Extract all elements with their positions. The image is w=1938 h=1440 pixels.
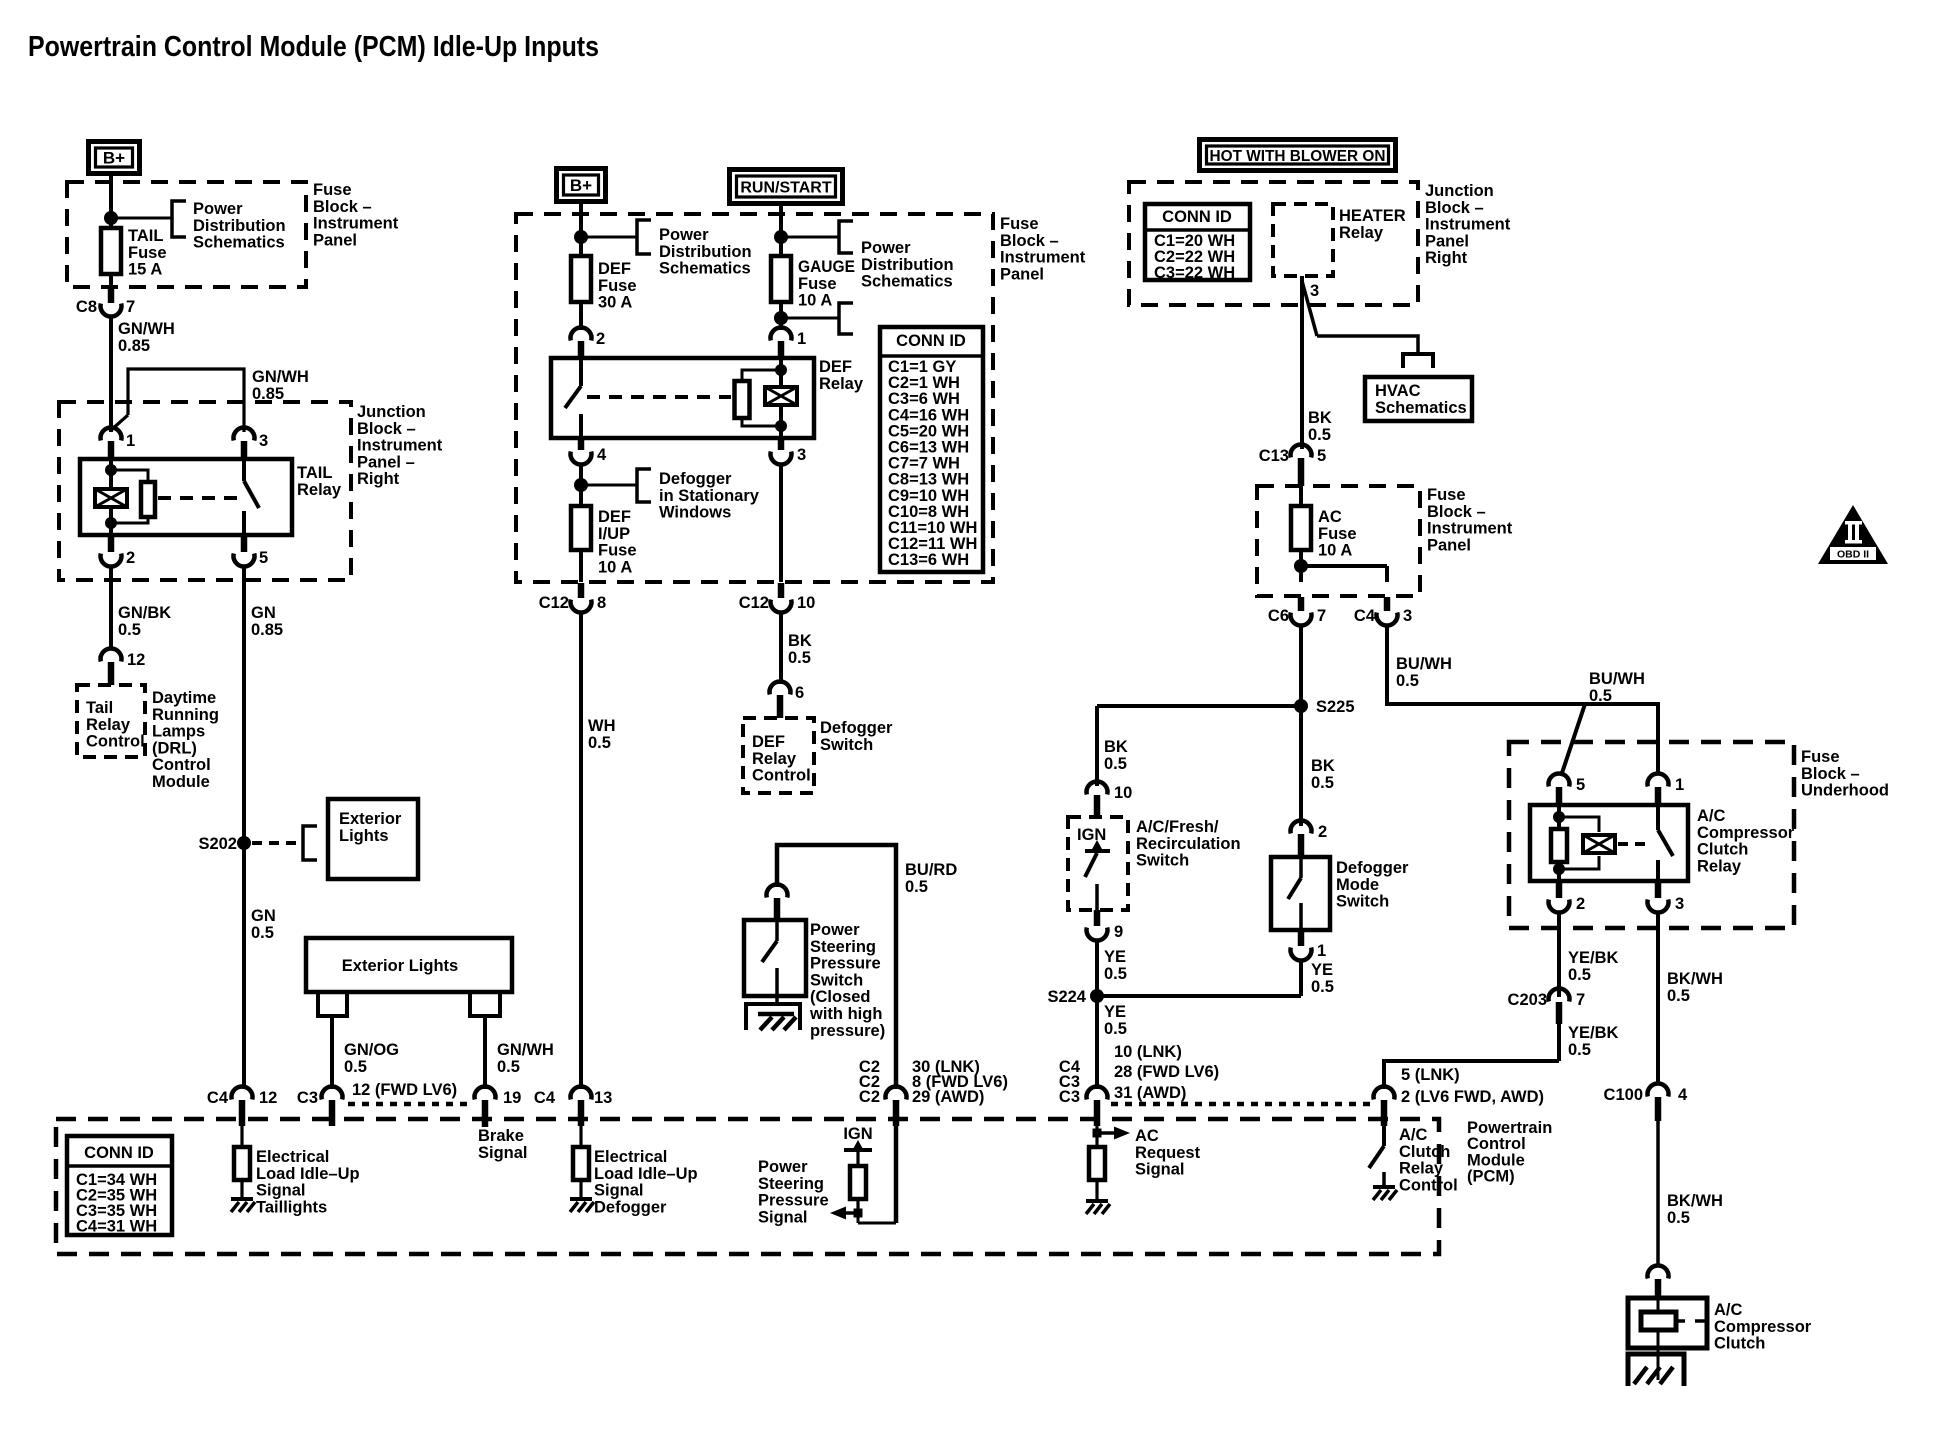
svg-text:Instrument: Instrument [313, 215, 399, 233]
svg-text:0.5: 0.5 [1568, 1041, 1591, 1059]
svg-text:BK/WH: BK/WH [1667, 970, 1723, 988]
svg-text:GN: GN [251, 604, 276, 622]
svg-text:Block –: Block – [357, 420, 416, 438]
svg-text:2: 2 [1318, 823, 1327, 841]
svg-text:Schematics: Schematics [1375, 399, 1467, 417]
svg-text:Panel: Panel [1425, 232, 1469, 250]
svg-text:Fuse: Fuse [128, 244, 167, 262]
svg-text:B+: B+ [103, 149, 125, 168]
svg-text:Switch: Switch [1136, 852, 1189, 870]
svg-text:C2: C2 [859, 1088, 880, 1106]
svg-text:Control: Control [1399, 1176, 1458, 1194]
svg-text:0.5: 0.5 [118, 621, 141, 639]
svg-text:15 A: 15 A [128, 261, 162, 279]
svg-text:6: 6 [795, 684, 804, 702]
svg-text:Fuse: Fuse [313, 181, 352, 199]
svg-text:YE: YE [1104, 948, 1126, 966]
svg-text:Powertrain Control Module (PCM: Powertrain Control Module (PCM) Idle-Up … [28, 31, 599, 63]
svg-text:(Closed: (Closed [810, 988, 871, 1006]
svg-text:C203: C203 [1508, 991, 1547, 1009]
svg-text:10 A: 10 A [598, 558, 632, 576]
svg-text:Schematics: Schematics [861, 273, 953, 291]
svg-text:GN/OG: GN/OG [344, 1041, 399, 1059]
svg-text:A/C: A/C [1399, 1126, 1428, 1144]
svg-text:S225: S225 [1316, 698, 1355, 716]
svg-text:BK: BK [788, 632, 812, 650]
svg-text:GN: GN [251, 907, 276, 925]
svg-text:0.5: 0.5 [1568, 966, 1591, 984]
svg-text:C13=6 WH: C13=6 WH [888, 551, 969, 569]
svg-text:GN/WH: GN/WH [118, 320, 175, 338]
svg-text:GN/WH: GN/WH [497, 1041, 554, 1059]
svg-text:pressure): pressure) [810, 1022, 885, 1040]
svg-text:GN/WH: GN/WH [252, 368, 309, 386]
svg-text:0.5: 0.5 [788, 649, 811, 667]
svg-text:0.5: 0.5 [1311, 774, 1334, 792]
svg-text:8: 8 [597, 594, 606, 612]
svg-text:5: 5 [259, 549, 268, 567]
svg-text:IGN: IGN [1077, 826, 1106, 844]
svg-text:YE: YE [1311, 961, 1333, 979]
svg-text:7: 7 [1317, 607, 1326, 625]
svg-text:0.85: 0.85 [251, 621, 283, 639]
svg-text:Defogger: Defogger [659, 470, 732, 488]
svg-text:RUN/START: RUN/START [740, 180, 831, 197]
svg-text:Instrument: Instrument [357, 437, 443, 455]
svg-text:DEF: DEF [598, 508, 631, 526]
svg-text:13: 13 [594, 1089, 612, 1107]
svg-text:Relay: Relay [1339, 224, 1384, 242]
svg-text:TAIL: TAIL [128, 227, 163, 245]
svg-text:Signal: Signal [758, 1208, 808, 1226]
svg-text:2 (LV6 FWD, AWD): 2 (LV6 FWD, AWD) [1401, 1088, 1544, 1106]
svg-text:Block –: Block – [1427, 503, 1486, 521]
svg-text:AC: AC [1135, 1127, 1159, 1145]
svg-text:Relay: Relay [819, 375, 864, 393]
svg-text:Control: Control [152, 756, 211, 774]
svg-text:C6: C6 [1268, 607, 1289, 625]
svg-text:1: 1 [1675, 776, 1684, 794]
svg-text:I/UP: I/UP [598, 525, 630, 543]
svg-text:Switch: Switch [810, 971, 863, 989]
svg-text:Request: Request [1135, 1144, 1201, 1162]
svg-text:0.5: 0.5 [497, 1058, 520, 1076]
svg-text:12 (FWD LV6): 12 (FWD LV6) [352, 1081, 457, 1099]
svg-text:7: 7 [1576, 991, 1585, 1009]
svg-text:Taillights: Taillights [256, 1198, 327, 1216]
svg-text:Lights: Lights [339, 827, 389, 845]
svg-text:Recirculation: Recirculation [1136, 835, 1241, 853]
svg-text:Clutch: Clutch [1714, 1335, 1765, 1353]
svg-text:Signal: Signal [478, 1144, 528, 1162]
svg-text:Panel: Panel [313, 231, 357, 249]
svg-text:Electrical: Electrical [594, 1148, 667, 1166]
svg-text:Relay: Relay [297, 481, 342, 499]
svg-text:YE/BK: YE/BK [1568, 1024, 1619, 1042]
svg-text:Exterior: Exterior [339, 810, 402, 828]
svg-text:Defogger: Defogger [1336, 859, 1409, 877]
svg-text:10: 10 [797, 594, 815, 612]
svg-text:3: 3 [797, 446, 806, 464]
svg-text:GN/BK: GN/BK [118, 604, 171, 622]
svg-text:Block –: Block – [1000, 232, 1059, 250]
svg-text:Instrument: Instrument [1427, 520, 1513, 538]
svg-text:Electrical: Electrical [256, 1148, 329, 1166]
svg-text:Lamps: Lamps [152, 723, 205, 741]
svg-text:BK/WH: BK/WH [1667, 1192, 1723, 1210]
svg-text:Compressor: Compressor [1714, 1318, 1812, 1336]
svg-text:Fuse: Fuse [1318, 525, 1357, 543]
svg-text:Compressor: Compressor [1697, 824, 1795, 842]
svg-text:DEF: DEF [598, 260, 631, 278]
svg-text:3: 3 [1310, 282, 1319, 300]
svg-text:A/C/Fresh/: A/C/Fresh/ [1136, 818, 1219, 836]
svg-text:Control: Control [752, 767, 811, 785]
svg-text:C3: C3 [297, 1089, 318, 1107]
svg-text:0.5: 0.5 [905, 878, 928, 896]
svg-text:BK: BK [1311, 757, 1335, 775]
svg-text:19: 19 [503, 1089, 521, 1107]
svg-text:Underhood: Underhood [1801, 782, 1889, 800]
svg-text:Clutch: Clutch [1399, 1143, 1450, 1161]
svg-text:0.5: 0.5 [344, 1058, 367, 1076]
svg-text:HEATER: HEATER [1339, 207, 1406, 225]
svg-text:Fuse: Fuse [1801, 748, 1840, 766]
svg-text:Fuse: Fuse [1427, 486, 1466, 504]
svg-text:Tail: Tail [86, 699, 113, 717]
svg-text:Fuse: Fuse [598, 542, 637, 560]
svg-text:DEF: DEF [819, 358, 852, 376]
svg-text:C13: C13 [1259, 447, 1289, 465]
svg-text:Windows: Windows [659, 504, 731, 522]
svg-text:C8: C8 [76, 298, 97, 316]
svg-text:0.5: 0.5 [1104, 965, 1127, 983]
svg-text:DEF: DEF [752, 733, 785, 751]
svg-text:29 (AWD): 29 (AWD) [912, 1088, 984, 1106]
svg-text:Signal: Signal [1135, 1161, 1185, 1179]
svg-text:0.5: 0.5 [1667, 987, 1690, 1005]
svg-text:0.5: 0.5 [1667, 1209, 1690, 1227]
svg-text:Schematics: Schematics [193, 234, 285, 252]
svg-text:Fuse: Fuse [798, 275, 837, 293]
svg-text:Right: Right [1425, 249, 1468, 267]
svg-text:2: 2 [126, 549, 135, 567]
svg-text:Daytime: Daytime [152, 689, 216, 707]
svg-text:10 A: 10 A [798, 292, 832, 310]
svg-text:1: 1 [1317, 942, 1326, 960]
svg-text:4: 4 [597, 446, 607, 464]
svg-text:Relay: Relay [1697, 857, 1742, 875]
svg-text:Junction: Junction [357, 403, 426, 421]
svg-text:Defogger: Defogger [594, 1198, 667, 1216]
svg-text:CONN ID: CONN ID [896, 332, 966, 350]
svg-text:S202: S202 [198, 835, 237, 853]
svg-text:Fuse: Fuse [1000, 215, 1039, 233]
svg-text:0.5: 0.5 [1308, 426, 1331, 444]
svg-text:Distribution: Distribution [193, 217, 286, 235]
svg-text:0.5: 0.5 [1311, 978, 1334, 996]
svg-text:A/C: A/C [1714, 1301, 1743, 1319]
svg-text:Block –: Block – [1425, 199, 1484, 217]
svg-text:Pressure: Pressure [758, 1192, 829, 1210]
svg-text:C12: C12 [739, 594, 769, 612]
svg-text:4: 4 [1678, 1086, 1688, 1104]
svg-text:BU/WH: BU/WH [1589, 670, 1645, 688]
svg-text:Fuse: Fuse [598, 277, 637, 295]
svg-text:1: 1 [126, 432, 135, 450]
svg-text:3: 3 [259, 432, 268, 450]
svg-text:Relay: Relay [1399, 1160, 1444, 1178]
svg-text:Exterior Lights: Exterior Lights [342, 957, 458, 975]
svg-text:Block –: Block – [313, 198, 372, 216]
svg-text:Load Idle–Up: Load Idle–Up [256, 1165, 360, 1183]
svg-text:BU/RD: BU/RD [905, 861, 957, 879]
svg-text:C12: C12 [539, 594, 569, 612]
svg-text:Signal: Signal [594, 1182, 644, 1200]
svg-text:Clutch: Clutch [1697, 841, 1748, 859]
svg-text:Power: Power [810, 921, 860, 939]
svg-text:Module: Module [152, 773, 210, 791]
svg-text:28 (FWD LV6): 28 (FWD LV6) [1114, 1063, 1219, 1081]
svg-text:0.5: 0.5 [588, 734, 611, 752]
svg-text:0.5: 0.5 [1104, 1020, 1127, 1038]
svg-text:Signal: Signal [256, 1182, 306, 1200]
svg-text:31 (AWD): 31 (AWD) [1114, 1084, 1186, 1102]
svg-text:C4: C4 [207, 1089, 229, 1107]
svg-text:7: 7 [126, 298, 135, 316]
svg-text:Mode: Mode [1336, 876, 1379, 894]
svg-text:Instrument: Instrument [1425, 216, 1511, 234]
svg-text:A/C: A/C [1697, 807, 1726, 825]
svg-text:Power: Power [758, 1158, 808, 1176]
svg-text:30 A: 30 A [598, 294, 632, 312]
svg-text:Pressure: Pressure [810, 955, 881, 973]
svg-text:0.5: 0.5 [1589, 687, 1612, 705]
svg-text:1: 1 [797, 330, 806, 348]
svg-text:Relay: Relay [86, 716, 131, 734]
svg-text:12: 12 [259, 1089, 277, 1107]
svg-text:5 (LNK): 5 (LNK) [1401, 1066, 1460, 1084]
svg-text:2: 2 [1576, 895, 1585, 913]
svg-text:Power: Power [659, 226, 709, 244]
svg-text:Brake: Brake [478, 1127, 524, 1145]
svg-text:C3: C3 [1059, 1088, 1080, 1106]
svg-text:Block –: Block – [1801, 765, 1860, 783]
svg-text:0.5: 0.5 [251, 924, 274, 942]
svg-text:Panel: Panel [1000, 265, 1044, 283]
svg-text:CONN ID: CONN ID [1162, 208, 1232, 226]
svg-text:C4=31 WH: C4=31 WH [76, 1218, 157, 1236]
svg-text:Steering: Steering [810, 938, 876, 956]
svg-text:Load Idle–Up: Load Idle–Up [594, 1165, 698, 1183]
svg-text:YE: YE [1104, 1003, 1126, 1021]
svg-text:Defogger: Defogger [820, 719, 893, 737]
svg-text:Schematics: Schematics [659, 260, 751, 278]
svg-text:GAUGE: GAUGE [798, 258, 855, 276]
svg-text:BK: BK [1104, 738, 1128, 756]
svg-text:0.85: 0.85 [118, 337, 150, 355]
svg-text:Switch: Switch [820, 736, 873, 754]
svg-text:BK: BK [1308, 409, 1332, 427]
svg-text:10: 10 [1114, 784, 1132, 802]
svg-text:Distribution: Distribution [861, 256, 954, 274]
svg-text:Power: Power [861, 239, 911, 257]
svg-text:5: 5 [1317, 447, 1326, 465]
svg-text:Panel: Panel [1427, 536, 1471, 554]
svg-text:3: 3 [1675, 895, 1684, 913]
svg-text:B+: B+ [570, 176, 592, 195]
svg-text:Junction: Junction [1425, 182, 1494, 200]
svg-text:10 (LNK): 10 (LNK) [1114, 1043, 1182, 1061]
svg-text:C3=22 WH: C3=22 WH [1154, 264, 1235, 282]
svg-text:Control: Control [86, 733, 145, 751]
svg-text:Relay: Relay [752, 750, 797, 768]
svg-text:Steering: Steering [758, 1175, 824, 1193]
svg-text:CONN ID: CONN ID [84, 1144, 154, 1162]
svg-text:IGN: IGN [843, 1125, 872, 1143]
svg-text:Running: Running [152, 706, 219, 724]
svg-text:(PCM): (PCM) [1467, 1168, 1515, 1186]
svg-text:HVAC: HVAC [1375, 382, 1421, 400]
svg-text:Right: Right [357, 470, 400, 488]
svg-text:9: 9 [1114, 923, 1123, 941]
svg-text:C100: C100 [1604, 1086, 1643, 1104]
svg-text:5: 5 [1576, 776, 1585, 794]
svg-text:3: 3 [1403, 607, 1412, 625]
svg-text:WH: WH [588, 717, 616, 735]
svg-text:C4: C4 [534, 1089, 556, 1107]
svg-text:Instrument: Instrument [1000, 249, 1086, 267]
svg-text:0.5: 0.5 [1396, 672, 1419, 690]
svg-text:HOT WITH BLOWER ON: HOT WITH BLOWER ON [1210, 148, 1386, 165]
svg-text:Power: Power [193, 200, 243, 218]
svg-text:Distribution: Distribution [659, 243, 752, 261]
svg-text:AC: AC [1318, 508, 1342, 526]
svg-text:Switch: Switch [1336, 893, 1389, 911]
svg-text:with high: with high [809, 1005, 882, 1023]
svg-text:TAIL: TAIL [297, 464, 332, 482]
svg-text:YE/BK: YE/BK [1568, 949, 1619, 967]
svg-text:in Stationary: in Stationary [659, 487, 760, 505]
svg-text:0.5: 0.5 [1104, 755, 1127, 773]
svg-text:12: 12 [127, 651, 145, 669]
svg-text:BU/WH: BU/WH [1396, 655, 1452, 673]
svg-text:Panel –: Panel – [357, 453, 415, 471]
svg-text:10 A: 10 A [1318, 542, 1352, 560]
svg-text:OBD II: OBD II [1837, 549, 1869, 561]
svg-text:C4: C4 [1354, 607, 1376, 625]
svg-text:S224: S224 [1047, 988, 1086, 1006]
svg-text:(DRL): (DRL) [152, 739, 197, 757]
svg-text:2: 2 [596, 330, 605, 348]
